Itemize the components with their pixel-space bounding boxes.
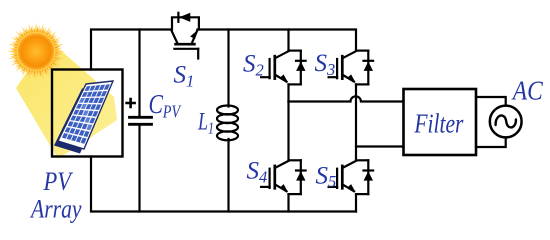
switch S5 IGBT body bar (341, 166, 344, 188)
wire: top rail left segment (91, 30, 171, 70)
switch S2 gate bar (269, 59, 271, 78)
switch S2 gate lead (261, 76, 270, 78)
switch S5 collector slant (343, 161, 356, 168)
PV array box (52, 70, 123, 157)
wire: PV bottom to bottom rail (91, 157, 356, 212)
switch S5 collector stub (356, 159, 368, 161)
wire: S2 collector from top rail (287, 30, 289, 51)
switch S2 emitter stub (289, 83, 301, 85)
AC sine wave (496, 116, 516, 128)
switch S2 collector stub (289, 49, 301, 51)
wire: AC bottom to filter (476, 138, 506, 148)
switch S1 IGBT emitter slant with arrow (192, 30, 198, 44)
switch S4 emitter slant with arrow (276, 185, 287, 191)
switch S4 collector slant (276, 161, 289, 168)
switch S1 diode (177, 13, 179, 22)
switch S4 gate bar (269, 169, 271, 188)
wire: filter to AC top (476, 97, 506, 105)
switch S3 gate lead (329, 76, 338, 78)
plus sign (127, 99, 135, 107)
switch S5 anti-parallel diode (367, 160, 369, 194)
switch S3 collector stub (356, 49, 368, 51)
inductor L1 bottom wire (227, 139, 229, 212)
switch S5 emitter stub (356, 193, 368, 195)
wire: node A down to S4 collector (287, 102, 289, 161)
wire: S2 emitter down to node A (287, 84, 289, 101)
switch S2 IGBT body bar (273, 56, 276, 78)
switch S3 anti-parallel diode (367, 51, 369, 85)
svg-text:AC: AC (511, 76, 544, 106)
wire: S4 emitter to bottom rail (287, 194, 289, 211)
solar panel face (58, 81, 113, 149)
switch S2 collector slant (276, 51, 289, 58)
switch S3 emitter stub (356, 83, 368, 85)
solar panel cells (62, 84, 110, 144)
switch S3 gate bar (336, 59, 338, 78)
wire: top rail right segment (198, 30, 357, 51)
switch S1 diode loop wire (172, 17, 199, 29)
solar panel 3D edge (54, 86, 109, 154)
switch S3 collector slant (343, 51, 356, 58)
wire: S5 emitter to bottom rail (355, 194, 357, 211)
switch S3 emitter slant with arrow (343, 75, 354, 81)
inductor L1 top wire (227, 30, 229, 107)
switch S2 anti-parallel diode (300, 51, 302, 85)
svg-text:PV: PV (43, 167, 74, 196)
switch S1 gate lead (197, 49, 199, 59)
capacitor CPV plates (130, 116, 152, 119)
sun rays (7, 22, 65, 80)
switch S4 anti-parallel diode (300, 160, 302, 194)
filter box (404, 89, 477, 155)
switch S4 IGBT body bar (273, 166, 276, 188)
wire: node B horizontal to filter (356, 145, 404, 147)
sun disc (18, 33, 55, 70)
light beam (16, 40, 117, 159)
switch S5 gate lead (329, 186, 338, 188)
switch S5 emitter slant with arrow (343, 185, 354, 191)
capacitor CPV top wire (138, 30, 140, 117)
inductor L1 coil (217, 106, 238, 115)
switch S3 IGBT body bar (341, 56, 344, 78)
AC source circle (490, 106, 522, 138)
switch S4 emitter stub (289, 193, 301, 195)
wire: S3 emitter down to node B (355, 84, 357, 160)
switch S1 gate bar (174, 48, 198, 50)
capacitor CPV bottom wire (138, 126, 140, 212)
wire: node A horizontal with hop over S3 leg (289, 96, 404, 101)
switch S1 body bar (176, 43, 195, 46)
svg-text:Filter: Filter (414, 109, 464, 139)
svg-text:Array: Array (29, 195, 82, 224)
switch S4 collector stub (289, 159, 301, 161)
switch S5 gate bar (336, 169, 338, 188)
switch S1 IGBT collector slant (171, 30, 178, 44)
switch S2 emitter slant with arrow (276, 75, 287, 81)
switch S4 gate lead (261, 186, 270, 188)
